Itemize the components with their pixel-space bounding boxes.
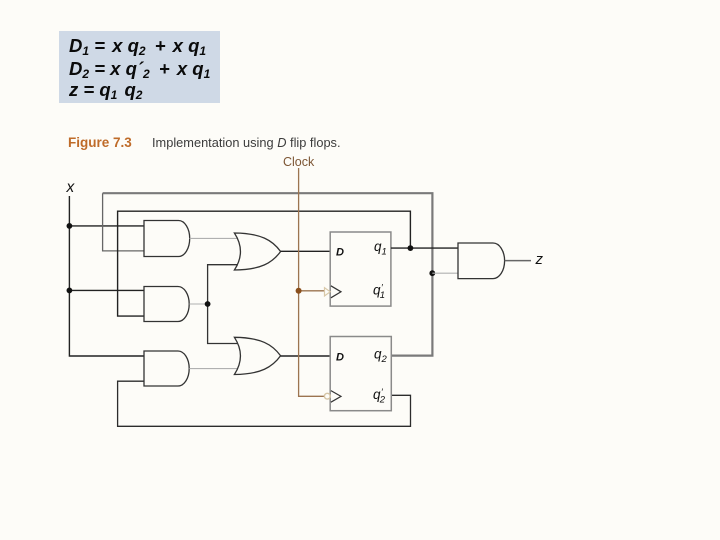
wire: q2 vertical to z AND bottom input	[432, 272, 458, 274]
wire: z output	[505, 260, 531, 262]
wire: q2' feedback (from FF2 q2' out, down, across bottom, up to AND3 lower input)	[118, 381, 411, 426]
node: q1 output junction	[408, 245, 414, 251]
FF1 clock faint arrowhead	[325, 288, 331, 296]
node: clock junction (brown)	[296, 288, 302, 294]
AND gate A2 (x . q1)	[144, 287, 189, 322]
node: q2 line to z gate junction	[429, 270, 435, 276]
D flip-flop FF1 box	[330, 232, 391, 306]
svg-text:Figure 7.3: Figure 7.3	[68, 135, 132, 150]
wire: A2 output to junction node	[189, 303, 207, 305]
svg-text:z: z	[535, 251, 544, 268]
FF2 clock faint circle	[324, 393, 330, 399]
wire: clock vertical	[299, 168, 325, 396]
svg-text:D: D	[336, 351, 344, 363]
svg-text:Clock: Clock	[283, 155, 315, 169]
AND gate Z (q1 . q2)	[458, 243, 505, 279]
wire: O2 output to FF2 D input	[281, 355, 331, 357]
AND gate A1 (x . q2)	[144, 221, 190, 257]
OR gate O2 (D2)	[234, 337, 280, 374]
equation box background	[59, 31, 220, 103]
AND gate A3 (x . q2')	[144, 351, 189, 386]
node: x to AND2 junction	[67, 288, 73, 294]
D flip-flop FF2 box	[330, 337, 391, 411]
svg-text:D: D	[336, 246, 344, 258]
wire: O1 output to FF1 D input	[281, 250, 331, 252]
svg-text:Implementation using D flip fl: Implementation using D flip flops.	[152, 135, 341, 150]
FF2 clock triangle	[331, 391, 341, 403]
wire: A3 output to OR2 bottom input	[189, 368, 238, 370]
node: A2 output junction	[205, 301, 211, 307]
OR gate O1 (D1)	[234, 233, 280, 270]
svg-text:z = q1 q2: z = q1 q2	[68, 79, 143, 102]
wire: q1 output to z AND gate	[391, 247, 458, 249]
node: x to AND1 junction	[67, 223, 73, 229]
svg-text:D2 = x q´2 + x q1: D2 = x q´2 + x q1	[69, 58, 211, 81]
svg-text:x: x	[66, 179, 76, 196]
FF1 clock triangle	[331, 286, 341, 298]
wire: clock branch to FF1	[299, 290, 325, 292]
wire: q2 feedback thick gray (q2 out, up right side, across top)	[103, 193, 433, 355]
wire: x branch to AND2 top input	[69, 289, 144, 291]
wire: A1 output to OR1 top input	[190, 237, 238, 239]
svg-text:D1 = x q2 + x q1: D1 = x q2 + x q1	[69, 35, 206, 58]
wire: A2 output junction vertical to OR1 and OR2 inputs	[208, 265, 238, 344]
wire: x branch to AND1 top input	[69, 225, 144, 227]
wire: x input vertical, down to AND3 top input	[69, 196, 144, 356]
wire: q1 feedback (up from q1 node, across, down to AND2 lower input)	[118, 211, 411, 316]
wire: q2 feedback left vertical down to AND1 lower input	[103, 193, 144, 251]
